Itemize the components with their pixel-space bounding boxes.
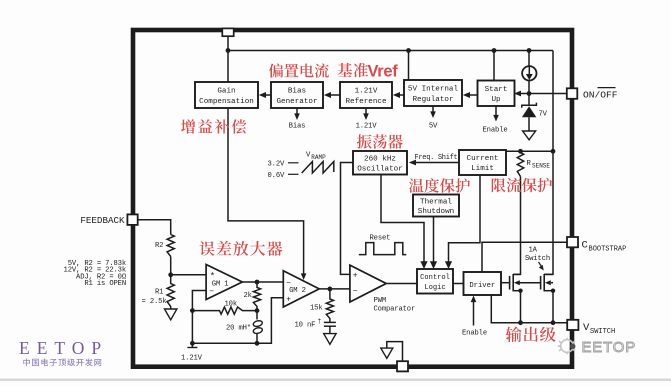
svg-text:BOOTSTRAP: BOOTSTRAP — [589, 246, 627, 254]
wire: Start Up to Regulator arrow — [463, 92, 478, 98]
svg-text:RAMP: RAMP — [311, 154, 326, 161]
red label: reference Vref — [338, 63, 399, 81]
node: feedback divider node — [168, 272, 173, 277]
wire: bottom rail to GM2 + input — [192, 298, 283, 344]
svg-text:PWM: PWM — [374, 297, 387, 305]
current source I1 — [522, 66, 536, 80]
node: junction top pin / rail — [226, 48, 231, 53]
svg-text:SWITCH: SWITCH — [590, 328, 615, 336]
label RSENSE — [527, 160, 551, 170]
red label: error amplifier — [200, 241, 283, 256]
svg-text:5V: 5V — [429, 123, 438, 131]
pin VIN (top) — [222, 28, 233, 36]
svg-text:Reference: Reference — [345, 98, 386, 106]
pin CBOOTSTRAP — [567, 237, 578, 247]
svg-text:10 nF: 10 nF — [295, 322, 316, 330]
resistor 2k — [253, 282, 260, 311]
node: GM1 output node — [255, 280, 260, 285]
node: junction coil bottom — [255, 341, 260, 346]
svg-text:0.6V: 0.6V — [268, 172, 285, 180]
zener diode D1 7V — [522, 94, 537, 132]
svg-text:Logic: Logic — [424, 284, 445, 292]
red label: oscillator — [357, 134, 403, 149]
net: Enable output arrow + label (start-up) — [483, 106, 508, 134]
capacitor 10nF — [324, 322, 336, 333]
svg-text:R1: R1 — [155, 289, 163, 297]
svg-text:Thermal: Thermal — [420, 198, 452, 206]
svg-text:15k: 15k — [310, 304, 323, 312]
node: Q1 source junction — [518, 289, 522, 293]
svg-text:FEEDBACK: FEEDBACK — [80, 215, 125, 226]
svg-text:1.21V: 1.21V — [355, 88, 378, 96]
wire: Regulator to Reference arrow — [393, 92, 404, 98]
wire: oscillator ramp output to PWM comparator + input — [341, 163, 354, 275]
wire: feedback pin to R2 — [138, 220, 171, 235]
ground pin assembly (bottom) — [381, 342, 403, 361]
svg-text:EETOP: EETOP — [582, 339, 637, 356]
wire: Rsense bottom to switch drain (left FET) — [513, 177, 520, 275]
svg-text:7V: 7V — [539, 110, 548, 118]
node: junction rail / current source branch — [527, 48, 532, 53]
svg-text:Enable: Enable — [462, 330, 487, 338]
svg-text:C: C — [582, 239, 588, 251]
transistor Q2 (1A switch) — [541, 274, 553, 291]
svg-text:2k: 2k — [244, 292, 252, 300]
wire: control logic to driver — [453, 283, 464, 285]
logo EETOP grey — [558, 338, 636, 356]
node: junction rail / 5V regulator drop — [406, 48, 411, 53]
svg-text:+: + — [353, 272, 358, 281]
svg-text:Bias: Bias — [288, 88, 306, 96]
resistor R2 — [167, 235, 174, 257]
svg-text:10k: 10k — [225, 300, 238, 308]
svg-text:Enable: Enable — [483, 126, 508, 134]
svg-text:Regulator: Regulator — [412, 96, 453, 104]
wire: rail right end down to Rsense rail and switch drain — [544, 51, 553, 275]
block: Control Logic — [417, 269, 453, 294]
logo EETOP purple — [19, 338, 108, 366]
svg-text:1A: 1A — [529, 247, 538, 255]
svg-text:Switch: Switch — [525, 255, 550, 263]
svg-text:R1 is OPEN: R1 is OPEN — [84, 280, 126, 288]
wire: gain compensation to GM2 node — [228, 108, 306, 280]
op-amp GM1 — [206, 265, 242, 300]
svg-text:Reset: Reset — [370, 235, 391, 243]
wire: driver bottom to Vswitch rail — [491, 295, 567, 323]
wire: divider node to GM1 + input — [171, 274, 206, 276]
wire: VIN pin stem to top rail — [227, 36, 229, 51]
block: Thermal Shutdown — [413, 195, 459, 217]
svg-text:Freq. Shift: Freq. Shift — [415, 154, 458, 162]
wire: driver top to bootstrap rail — [482, 242, 567, 272]
pin label ON/OFF with overline — [583, 88, 618, 101]
ground (below zener) — [523, 131, 536, 140]
svg-text:1.21V: 1.21V — [181, 354, 203, 362]
node: GM2 output node — [328, 287, 333, 292]
reset pulse waveform annotation — [359, 243, 407, 255]
block: Gain Compensation — [195, 82, 258, 108]
svg-text:Up: Up — [491, 96, 501, 104]
wire: Q2 source down to Vswitch rail — [552, 291, 554, 323]
inductor 20mH — [253, 311, 263, 344]
svg-text:V: V — [583, 322, 590, 334]
svg-text:GM 1: GM 1 — [212, 280, 229, 288]
svg-text:Comparator: Comparator — [374, 305, 416, 313]
wire: gate link Q1 to Q2 — [521, 282, 541, 284]
label 10 nF — [295, 318, 322, 329]
label 0.6V with tick — [268, 172, 299, 180]
svg-text:†: † — [318, 318, 322, 325]
svg-text:= 2.5k: = 2.5k — [142, 298, 167, 306]
red label: current limit protection — [492, 178, 552, 193]
resistor 15k — [326, 289, 333, 323]
svg-text:SENSE: SENSE — [532, 163, 550, 170]
wire: enable arrow into driver — [471, 296, 477, 326]
wire: 1.21V ref to GM1 - input — [192, 291, 206, 348]
node: Q2 source at rail — [551, 320, 556, 325]
label 1A Switch with pointer — [525, 247, 550, 271]
wire: GM2 output to PWM - input — [319, 288, 350, 290]
comparator PWM — [350, 265, 386, 302]
block: 1.21V Reference — [340, 82, 392, 108]
pin FEEDBACK — [127, 214, 137, 225]
ground (below R1) — [165, 309, 177, 320]
wire: PWM output to Control Logic — [386, 283, 417, 285]
node: Q1 source at rail — [518, 320, 523, 325]
wire: current source to ON/OFF net — [528, 81, 530, 94]
svg-text:260 kHz: 260 kHz — [364, 155, 396, 163]
wire: top supply rail — [228, 50, 553, 52]
ramp waveform annotation — [302, 162, 334, 174]
svg-text:Driver: Driver — [469, 282, 495, 290]
resistor R1 — [167, 275, 174, 309]
svg-text:1.21V: 1.21V — [356, 123, 378, 131]
pin label CBOOTSTRAP — [582, 239, 627, 253]
ground (below 10nF) — [324, 334, 336, 345]
wire: Reference to Bias Generator arrow — [324, 92, 340, 98]
red label: gain compensation — [181, 119, 246, 133]
node: Q2 source junction — [551, 289, 555, 293]
wire: rail drop to Gain Compensation — [227, 51, 229, 83]
wire: Freq. Shift arrow (current limit to oscillator) — [409, 160, 459, 166]
resistor 10k — [192, 307, 257, 314]
svg-text:R2: R2 — [155, 242, 163, 250]
red label: output stage — [506, 327, 556, 343]
net: 1.21V output arrow + label — [356, 108, 378, 131]
wire: rail drop to current source I1 — [528, 51, 530, 67]
svg-text:EETOP: EETOP — [19, 338, 108, 358]
block: Driver — [464, 272, 502, 295]
svg-text:Compensation: Compensation — [199, 98, 254, 106]
wire: oscillator to control logic — [381, 175, 428, 270]
svg-text:20 mH*: 20 mH* — [226, 324, 251, 332]
label PWM Comparator — [374, 297, 416, 313]
red label: thermal protection — [409, 178, 470, 193]
svg-text:Limit: Limit — [471, 165, 494, 173]
transistor Q1 (driver FET) — [501, 274, 521, 291]
svg-text:Vref: Vref — [368, 63, 399, 81]
svg-text:Oscillator: Oscillator — [357, 165, 403, 173]
node: junction rail / start-up drop — [492, 48, 497, 53]
pin label VSWITCH — [583, 322, 615, 336]
block: 5V Internal Regulator — [404, 80, 462, 106]
node 1.21V terminal — [187, 347, 197, 349]
wire: rail drop to 5V Internal Regulator — [408, 51, 410, 81]
pin ON/OFF — [567, 88, 578, 99]
node: junction Rsense top — [518, 149, 523, 154]
svg-text:3.2V: 3.2V — [268, 161, 285, 169]
block: Bias Generator — [271, 82, 323, 108]
red label: bias current — [269, 63, 329, 77]
svg-text:GM 2: GM 2 — [289, 287, 306, 295]
node: junction rail / switch drain line — [551, 149, 556, 154]
svg-text:Control: Control — [420, 274, 450, 282]
wire: Q1 source down to Vswitch rail — [520, 291, 522, 323]
pin GND — [397, 361, 408, 371]
note: resistor values — [64, 260, 127, 288]
wire: ON/OFF pin to Start Up input — [517, 93, 567, 95]
block: 260 kHz Oscillator — [353, 151, 407, 175]
wire: thermal shutdown to control logic — [430, 217, 437, 270]
net: Bias output arrow + label — [289, 108, 306, 131]
wire: Bias Generator to Gain Compensation arrow — [259, 92, 271, 98]
svg-text:5V Internal: 5V Internal — [408, 86, 459, 94]
bottom separator line — [0, 379, 671, 382]
svg-text:ON/OFF: ON/OFF — [583, 89, 618, 100]
node: junction 2k / 10k / coil — [255, 308, 260, 313]
block: Start Up — [478, 81, 515, 107]
svg-text:Shutdown: Shutdown — [418, 208, 454, 216]
block: Current Limit — [459, 150, 506, 175]
op-amp GM2 — [283, 271, 319, 307]
wire: current limit to control logic — [445, 175, 480, 269]
wire: Rsense top rail — [506, 150, 553, 152]
wire: rail drop to Start Up — [493, 51, 495, 81]
wire: R2 bottom to feedback node — [170, 257, 172, 275]
svg-text:−: − — [209, 288, 214, 297]
node: junction 10k tap — [190, 308, 195, 313]
svg-text:+: + — [286, 296, 291, 305]
svg-text:Current: Current — [467, 155, 499, 163]
node: junction bottom rail — [190, 341, 195, 346]
svg-text:Start: Start — [485, 86, 508, 94]
svg-text:Generator: Generator — [276, 98, 317, 106]
svg-text:−: − — [353, 287, 358, 296]
node: junction ON/OFF line / zener branch — [527, 91, 532, 96]
svg-text:Bias: Bias — [289, 123, 306, 131]
svg-text:Gain: Gain — [217, 88, 235, 96]
label 3.2V with tick — [268, 161, 299, 169]
IC boundary box — [133, 30, 572, 367]
label VRAMP — [306, 151, 326, 160]
resistor RSENSE — [517, 151, 523, 176]
wire: GM1 output to GM2 - input — [242, 281, 283, 283]
pin VSWITCH — [567, 320, 578, 330]
net: 5V output arrow + label — [429, 106, 438, 131]
